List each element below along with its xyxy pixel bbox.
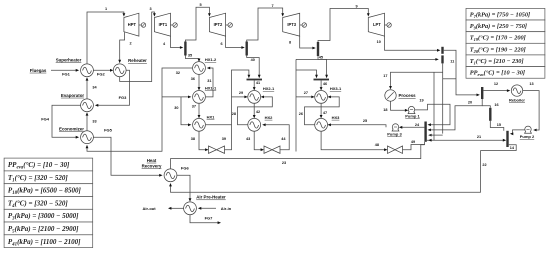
svg-text:43: 43 (246, 137, 250, 141)
svg-text:IPT3: IPT3 (287, 22, 296, 27)
stream 17 (442, 63, 444, 133)
svg-text:FG3: FG3 (119, 95, 128, 100)
heat exchanger Economizer (81, 131, 94, 144)
mixer bar M3 (314, 79, 330, 81)
stream 44 (264, 125, 289, 150)
valve V3 (388, 146, 403, 153)
svg-text:20: 20 (468, 101, 472, 105)
stream 36 (198, 74, 200, 89)
svg-text:9: 9 (355, 4, 357, 8)
stream 9 (318, 9, 368, 43)
stream 3 (120, 12, 155, 82)
stream 27 (296, 96, 313, 98)
svg-text:FG1: FG1 (62, 72, 71, 77)
svg-text:48: 48 (375, 143, 379, 147)
stream 30 (162, 96, 190, 98)
svg-text:1: 1 (105, 7, 107, 11)
svg-text:26: 26 (299, 112, 303, 116)
svg-text:FG7: FG7 (205, 215, 214, 220)
svg-text:Fluegas: Fluegas (30, 68, 47, 73)
svg-text:8: 8 (289, 40, 291, 44)
pump P1 (408, 106, 414, 112)
stream 43 to valve V2 (254, 131, 262, 150)
splitter S2 (246, 42, 248, 56)
splitter barC (481, 87, 483, 99)
svg-text:P9​(kPa) = [250 − 750]: P9​(kPa) = [250 − 750] (470, 23, 527, 30)
svg-text:47: 47 (323, 111, 327, 115)
svg-text:LPT: LPT (373, 22, 381, 27)
svg-text:11: 11 (450, 59, 454, 63)
svg-text:Pump 1: Pump 1 (405, 113, 420, 118)
stream 41 (253, 80, 255, 89)
stream 47 (320, 103, 322, 117)
svg-text:29: 29 (239, 91, 243, 95)
stream FG6 (177, 175, 190, 200)
svg-text:45: 45 (319, 55, 323, 59)
svg-text:5: 5 (199, 3, 201, 7)
svg-text:Evaporator: Evaporator (61, 93, 84, 98)
stream 24 (401, 126, 425, 128)
svg-text:36: 36 (191, 77, 195, 81)
stream 39 (225, 70, 249, 150)
stream Air-in (200, 207, 217, 209)
stream 22 (171, 151, 481, 193)
turbine IPT2 (209, 13, 225, 36)
svg-text:Pump 3: Pump 3 (387, 132, 402, 137)
svg-text:41: 41 (256, 81, 260, 85)
mixer bar N (424, 122, 426, 142)
svg-text:HX1-1: HX1-1 (205, 85, 217, 90)
svg-text:32: 32 (176, 71, 180, 75)
svg-text:Process: Process (399, 93, 417, 98)
svg-text:7: 7 (271, 4, 273, 8)
svg-text:FG6: FG6 (181, 166, 190, 171)
stream to splitter barB (296, 58, 437, 60)
valve V2 (264, 146, 280, 153)
svg-text:13: 13 (529, 82, 533, 86)
stream 45 (318, 56, 327, 77)
svg-text:33: 33 (92, 119, 96, 123)
stream 35 (185, 56, 199, 61)
process unit (385, 90, 396, 101)
heat exchanger HX1-2 (193, 62, 206, 75)
svg-text:Economizer: Economizer (59, 126, 84, 131)
stream 23 (171, 145, 425, 169)
svg-text:16: 16 (494, 103, 498, 107)
svg-text:18: 18 (383, 108, 387, 112)
stream HX1 right feed (206, 124, 232, 126)
svg-text:T1​(°C) = [210 − 230]: T1​(°C) = [210 − 230] (470, 58, 524, 65)
svg-text:3: 3 (149, 7, 151, 11)
stream 21 (427, 139, 505, 141)
svg-text:27: 27 (304, 91, 308, 95)
svg-text:IPT1: IPT1 (159, 22, 168, 27)
heat exchanger HX3 (315, 118, 328, 131)
stream 48 to valve V3 (321, 131, 386, 150)
stream 18 (391, 101, 407, 110)
svg-text:37: 37 (192, 104, 196, 108)
stream 25 (329, 125, 386, 128)
svg-text:40: 40 (251, 58, 255, 62)
turbine LPT (368, 13, 384, 36)
svg-text:28: 28 (232, 112, 236, 116)
heat exchanger Evaporator (81, 99, 94, 112)
svg-text:Reboiler: Reboiler (509, 97, 525, 102)
stream 7 (247, 8, 283, 42)
svg-text:HX2-1: HX2-1 (263, 86, 275, 91)
heat exchanger HX2-1 (248, 91, 261, 104)
svg-text:Pump 2: Pump 2 (520, 134, 535, 139)
stream 15b pump2 out (512, 130, 525, 134)
splitter barD (489, 108, 491, 121)
stream 40 (247, 56, 260, 77)
stream 12 (483, 90, 508, 92)
svg-text:17: 17 (383, 74, 387, 78)
svg-text:6: 6 (220, 42, 222, 46)
svg-text:HX3: HX3 (332, 115, 341, 120)
svg-text:IPT2: IPT2 (214, 22, 223, 27)
stream 28 loop (238, 97, 273, 125)
stream 32 (87, 68, 192, 151)
svg-text:HX2: HX2 (265, 115, 274, 120)
stream 42 (253, 103, 255, 117)
stream 13 (523, 91, 539, 130)
svg-text:Recovery: Recovery (142, 163, 162, 168)
heat exchanger Air Pre-Heater (184, 202, 197, 215)
tie line (443, 78, 456, 80)
svg-text:46: 46 (323, 82, 327, 86)
stream 1 (87, 12, 124, 64)
valve V1 (209, 146, 225, 153)
stream 2 (120, 32, 125, 61)
svg-text:FG2: FG2 (97, 72, 106, 77)
stream 38 to valve V1 (199, 131, 207, 150)
heat exchanger HX3-1 (315, 91, 328, 104)
svg-text:Air-in: Air-in (221, 206, 232, 211)
stream 15 (490, 121, 504, 131)
svg-text:19: 19 (419, 98, 423, 102)
svg-text:25: 25 (363, 119, 367, 123)
stream FG3 (97, 70, 130, 105)
stream 4 (171, 36, 182, 47)
splitter S1 (184, 42, 186, 56)
stream 16 and 20 (429, 99, 482, 130)
svg-text:Air-out: Air-out (142, 206, 156, 211)
svg-text:38: 38 (191, 137, 195, 141)
stream 11 (444, 50, 479, 95)
svg-text:10: 10 (377, 40, 381, 44)
stream 26 loop (305, 97, 340, 125)
heat exchanger HX2 (248, 118, 261, 131)
stream 6 (226, 36, 244, 47)
heat exchanger HX1-1 (193, 91, 206, 104)
svg-text:30: 30 (174, 106, 178, 110)
column3 feed (296, 70, 317, 77)
svg-text:P7​(kPa) = [750 − 1050]: P7​(kPa) = [750 − 1050] (470, 12, 530, 19)
splitter barE (506, 131, 508, 147)
table bottom-left decision variables (4, 158, 93, 171)
fluegas inlet line FG1 (51, 69, 78, 71)
stream 14 (481, 145, 517, 151)
heat exchanger HX1 (193, 118, 206, 131)
svg-text:Reheater: Reheater (128, 58, 147, 63)
mixer bar M2 (247, 79, 263, 81)
stream 10 (385, 36, 439, 50)
pump P3 (392, 124, 398, 130)
svg-text:31: 31 (207, 79, 211, 83)
svg-text:42: 42 (256, 110, 260, 114)
column2 feed riser x296 (295, 59, 297, 151)
svg-text:HX1-2: HX1-2 (205, 57, 217, 62)
splitter barA (441, 47, 443, 54)
table top-right decision variables (466, 8, 545, 20)
stream 33 (86, 114, 88, 131)
svg-text:23: 23 (282, 161, 286, 165)
heat exchanger Reheater (113, 64, 126, 77)
svg-text:15: 15 (497, 123, 501, 127)
stream 37 (198, 103, 200, 117)
svg-text:HPT: HPT (128, 22, 137, 27)
svg-text:22: 22 (482, 163, 486, 167)
stream 49 (403, 142, 425, 150)
svg-text:HX3-1: HX3-1 (330, 86, 342, 91)
turbine HPT (124, 13, 139, 36)
stream FG7 (190, 215, 219, 223)
heat exchanger Superheater (81, 64, 94, 77)
stream 46 (320, 80, 322, 89)
stream 5 (185, 7, 209, 41)
svg-text:12: 12 (494, 82, 498, 86)
svg-text:2: 2 (129, 42, 131, 46)
stream into nexus from barB2 (433, 72, 435, 140)
svg-text:Superheater: Superheater (56, 57, 82, 62)
stream 8 (300, 36, 315, 48)
svg-text:HX1: HX1 (207, 115, 216, 120)
pump P2 (525, 126, 531, 132)
svg-text:FG5: FG5 (104, 128, 113, 133)
svg-text:T19​(°C) = [170 − 200]: T19​(°C) = [170 − 200] (470, 35, 526, 42)
turbine IPT3 (283, 13, 300, 36)
heat exchanger Reboiler (511, 85, 522, 96)
stream Air-out (170, 207, 184, 209)
heat exchanger Heat Recovery (164, 169, 177, 182)
stream 29 (232, 96, 247, 98)
svg-text:35: 35 (188, 54, 192, 58)
stream 34 (86, 79, 88, 99)
svg-text:T20​(°C) = [190 − 220]: T20​(°C) = [190 − 220] (470, 46, 526, 53)
stream FG2 (93, 69, 111, 71)
turbine IPT1 (154, 13, 170, 36)
svg-text:Heat: Heat (147, 158, 157, 163)
svg-text:39: 39 (222, 137, 226, 141)
svg-text:FG4: FG4 (41, 117, 50, 122)
splitter barB (441, 55, 443, 63)
svg-text:49: 49 (411, 140, 415, 144)
svg-text:Air Pre-Heater: Air Pre-Heater (196, 195, 226, 200)
stream 19 (415, 104, 450, 124)
stream FG4 (52, 105, 81, 137)
svg-text:21: 21 (477, 135, 481, 139)
splitter S3 (317, 42, 319, 56)
stream FG5 (93, 137, 161, 175)
stream 31 (206, 68, 213, 97)
